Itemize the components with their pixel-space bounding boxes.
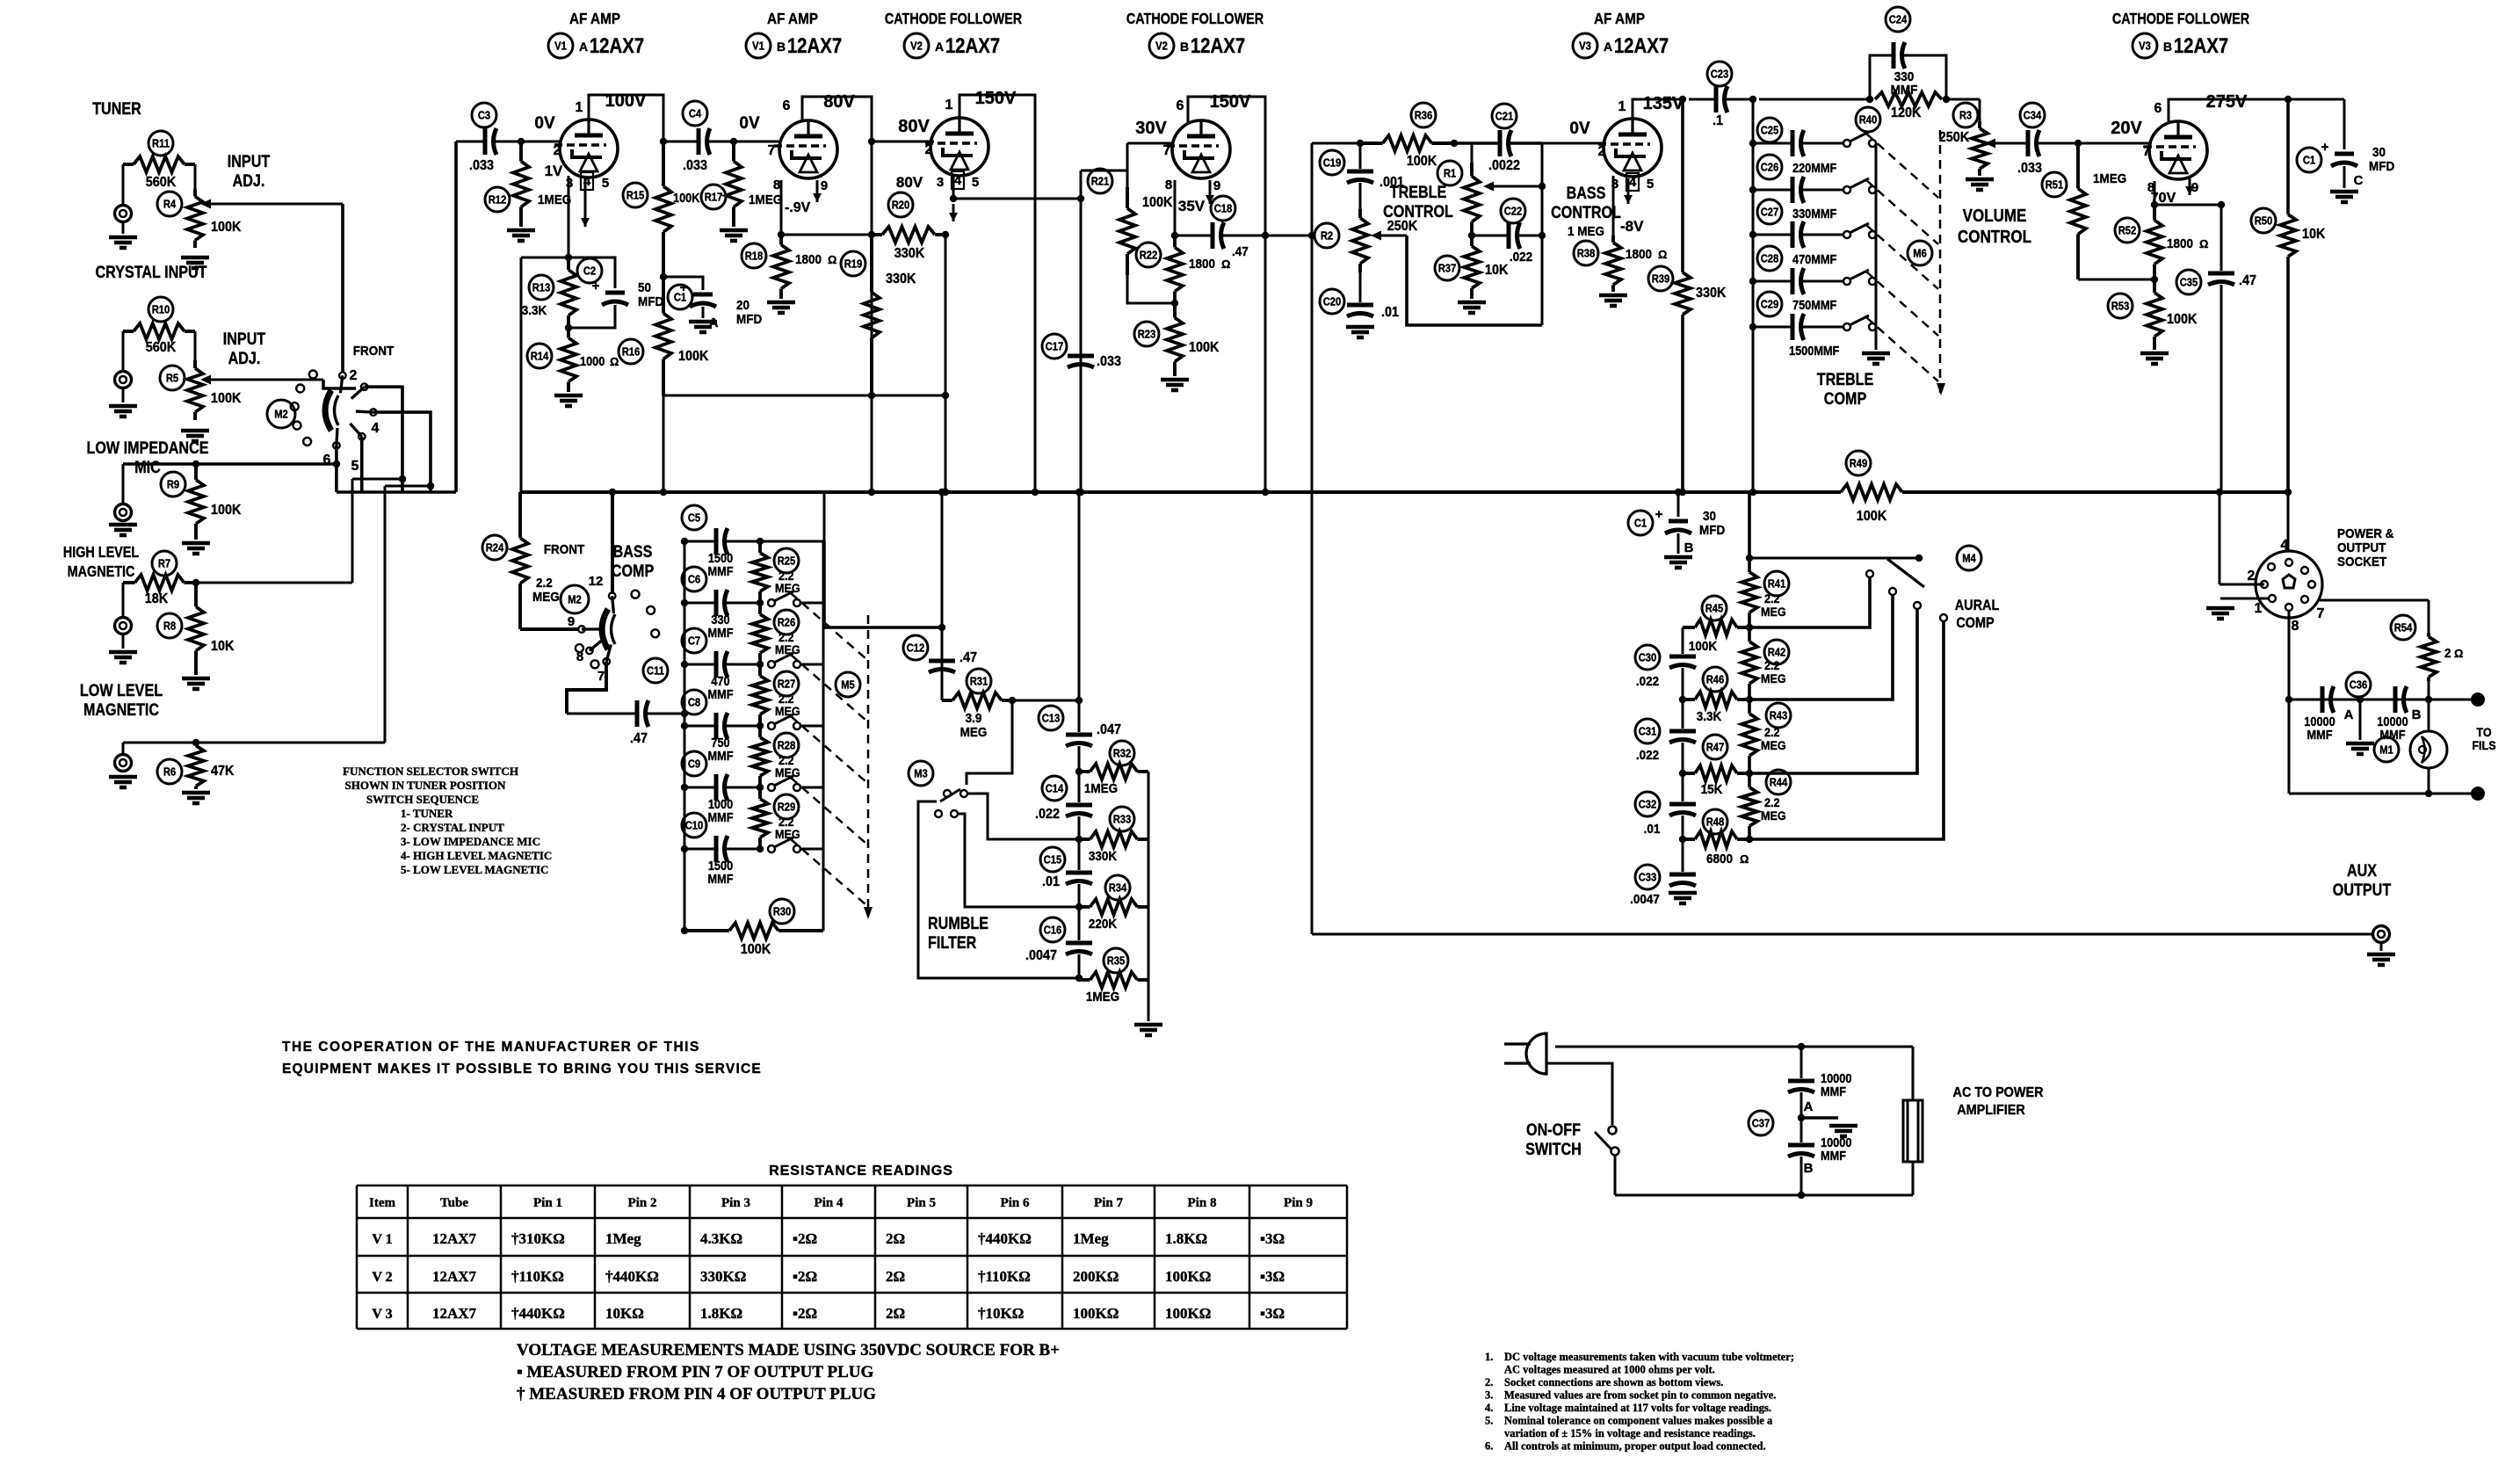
wire main B+ bus (520, 489, 2292, 496)
svg-text:MMF: MMF (1821, 1148, 1846, 1163)
svg-text:Pin 5: Pin 5 (907, 1196, 936, 1210)
svg-text:12AX7: 12AX7 (590, 33, 644, 57)
svg-text:.033: .033 (2017, 160, 2042, 176)
label POWER OUTPUT SOCKET (2337, 526, 2393, 569)
resistor R41 2.2MEG (1742, 571, 1789, 619)
jack aux output (2373, 926, 2390, 943)
capacitor C30 .022 (1635, 627, 1696, 689)
svg-text:200KΩ: 200KΩ (1073, 1268, 1119, 1285)
svg-text:All controls at minimum, prope: All controls at minimum, proper output l… (1504, 1440, 1766, 1453)
switch M6 treble comp dashed linkage (1866, 130, 1945, 395)
svg-text:4: 4 (372, 421, 380, 436)
svg-text:Pin 6: Pin 6 (1001, 1196, 1030, 1210)
ground R17 (720, 230, 748, 241)
power output socket (2256, 551, 2322, 618)
svg-text:ADJ.: ADJ. (233, 171, 265, 191)
node R52 R53 (2151, 276, 2158, 283)
wire signal rail down to aux (1311, 236, 1314, 934)
pot R3 volume 250K (1939, 99, 1988, 176)
label RUMBLE FILTER (928, 914, 988, 953)
svg-text:.47: .47 (630, 730, 648, 746)
svg-text:C21: C21 (1495, 110, 1514, 123)
svg-text:▪3Ω: ▪3Ω (1260, 1230, 1285, 1247)
svg-text:100K: 100K (1689, 639, 1718, 654)
resistor R11 560K (123, 131, 195, 205)
ground C1B (1664, 557, 1692, 568)
svg-text:C20: C20 (1323, 295, 1342, 308)
pin 8 V2B (1165, 178, 1172, 192)
svg-text:MMF: MMF (707, 871, 733, 886)
svg-text:220MMF: 220MMF (1792, 160, 1836, 175)
svg-text:SHOWN IN TUNER POSITION: SHOWN IN TUNER POSITION (345, 779, 506, 792)
ground R6 (182, 793, 210, 803)
svg-text:INPUT: INPUT (228, 152, 271, 171)
svg-text:4.: 4. (1485, 1402, 1493, 1414)
treble comp value 1500MMF (1789, 343, 1839, 358)
svg-text:B: B (1804, 1161, 1814, 1176)
svg-text:C22: C22 (1504, 205, 1523, 218)
svg-text:Pin 4: Pin 4 (815, 1196, 844, 1210)
svg-text:6: 6 (1177, 98, 1184, 113)
svg-text:▪3Ω: ▪3Ω (1260, 1268, 1285, 1285)
svg-text:10K: 10K (211, 638, 234, 654)
label INPUT ADJ top (228, 152, 271, 191)
svg-text:470MMF: 470MMF (1792, 251, 1836, 266)
svg-text:C23: C23 (1711, 68, 1729, 81)
svg-text:2.: 2. (1485, 1376, 1493, 1388)
svg-text:MEG: MEG (775, 827, 800, 841)
svg-text:C7: C7 (688, 634, 701, 648)
wire signal rail to treble (1312, 143, 1360, 236)
wire plug top line (1555, 1043, 1913, 1050)
svg-text:†10KΩ: †10KΩ (978, 1305, 1024, 1322)
capacitor C32 .01 (1635, 773, 1696, 837)
svg-text:AF AMP: AF AMP (569, 10, 620, 27)
resistor R44 2.2MEG (1742, 770, 1791, 826)
wire high level magnetic line (192, 475, 406, 586)
svg-text:1800: 1800 (1626, 247, 1652, 262)
label 80V V2A grid (898, 117, 930, 136)
wire R21 tap (1077, 170, 1127, 202)
svg-text:C4: C4 (689, 107, 702, 120)
wire R54 to fils line (2425, 681, 2432, 703)
capacitor C22 .022 (1472, 199, 1546, 265)
note cooperation of manufacturer (282, 1040, 762, 1077)
wire low level magnetic line (123, 482, 434, 746)
svg-text:V2: V2 (910, 40, 923, 53)
svg-text:MMF: MMF (1821, 1084, 1846, 1098)
svg-text:Line voltage maintained at 117: Line voltage maintained at 117 volts for… (1504, 1402, 1771, 1414)
wire V3B cathode arrow (2185, 178, 2194, 195)
svg-text:R34: R34 (1109, 881, 1127, 895)
svg-text:C29: C29 (1761, 298, 1779, 311)
svg-text:R37: R37 (1438, 262, 1457, 275)
svg-text:MIC: MIC (134, 458, 161, 477)
svg-text:4: 4 (1629, 175, 1637, 190)
wire V3A cathode to R38 (1612, 176, 1615, 236)
svg-text:0V: 0V (534, 114, 555, 133)
svg-text:30: 30 (1703, 509, 1716, 524)
capacitor C20 .01 (1320, 272, 1400, 320)
svg-text:50: 50 (638, 280, 651, 295)
label 1V V1A (545, 163, 563, 179)
wire fils bottom line (2289, 700, 2473, 797)
resistor R6 47K (157, 743, 234, 789)
svg-text:R7: R7 (158, 557, 171, 570)
wire aural chain rail (1746, 492, 1753, 839)
svg-text:330K: 330K (894, 245, 924, 261)
svg-text:B: B (777, 40, 786, 54)
resistor R26 2.2MEG bass comp (752, 603, 800, 664)
svg-text:R28: R28 (778, 739, 796, 752)
node treble input (1357, 140, 1364, 147)
switch M5 bass comp dashed linkage (791, 593, 873, 919)
svg-text:Pin 7: Pin 7 (1094, 1196, 1123, 1210)
label BASS COMP (612, 542, 655, 581)
capacitor C17 .033 (1042, 334, 1121, 369)
svg-text:100K: 100K (2167, 311, 2197, 327)
ground C1A (689, 322, 717, 332)
svg-text:2- CRYSTAL INPUT: 2- CRYSTAL INPUT (401, 821, 504, 834)
label 70V V3B cathode (2151, 191, 2176, 206)
svg-text:12AX7: 12AX7 (787, 33, 842, 57)
notes list (1485, 1351, 1794, 1453)
svg-text:1: 1 (2255, 601, 2263, 616)
svg-text:C30: C30 (1639, 651, 1657, 664)
svg-text:V3: V3 (1579, 40, 1591, 53)
svg-text:250K: 250K (1387, 218, 1417, 234)
label AC TO POWER AMPLIFIER (1953, 1084, 2044, 1118)
svg-text:.47: .47 (959, 649, 977, 665)
svg-text:2Ω: 2Ω (886, 1230, 905, 1247)
note function selector switch (343, 765, 552, 876)
resistor R31 3.9MEG (942, 669, 1016, 740)
svg-text:80V: 80V (896, 174, 923, 191)
capacitor C29 treble comp (1749, 292, 1876, 340)
svg-text:R54: R54 (2394, 621, 2413, 634)
ground R37 (1458, 302, 1486, 313)
label FRONT bass selector (544, 542, 585, 557)
resistor R25 2.2MEG bass comp (752, 541, 800, 603)
svg-text:100K: 100K (1142, 194, 1172, 210)
pins 3 4 5 V3A (1611, 173, 1654, 192)
svg-text:330K: 330K (886, 271, 916, 286)
svg-text:R4: R4 (163, 198, 177, 211)
wire selector output to C3 (454, 141, 458, 492)
ground R53 (2140, 353, 2169, 364)
svg-text:2: 2 (2248, 569, 2256, 584)
wire R46 row to switch (1749, 588, 1896, 700)
wire C37 bottom (1798, 1156, 1805, 1199)
svg-text:C6: C6 (688, 573, 701, 586)
resistor R36 100K (1360, 103, 1454, 169)
jack low impedance mic (115, 464, 132, 521)
pin 7 V1B (768, 143, 776, 158)
svg-text:6800: 6800 (1706, 852, 1733, 866)
svg-text:18K: 18K (145, 591, 168, 606)
resistor R15 100K (623, 138, 699, 277)
svg-text:1.: 1. (1485, 1351, 1493, 1363)
svg-text:†110KΩ: †110KΩ (511, 1268, 564, 1285)
resistor R10 560K (123, 297, 195, 371)
capacitor C31 .022 (1635, 700, 1696, 763)
svg-text:3.9: 3.9 (966, 711, 982, 726)
svg-text:MMF: MMF (707, 686, 733, 701)
svg-text:C14: C14 (1046, 782, 1064, 795)
resistor R37 10K (1435, 236, 1508, 299)
label 135V V3A plate (1643, 94, 1684, 113)
svg-text:10KΩ: 10KΩ (605, 1305, 644, 1322)
ground high level jack (109, 652, 137, 663)
svg-text:12AX7: 12AX7 (432, 1305, 477, 1322)
resistor R42 2.2MEG (1742, 640, 1789, 685)
treble comp value 220MMF (1792, 160, 1836, 175)
svg-text:560K: 560K (146, 174, 176, 190)
ground socket pin1 (2206, 608, 2234, 619)
wire R21 bottom to R22 node (1127, 275, 1174, 303)
svg-text:20: 20 (736, 298, 749, 313)
svg-text:C19: C19 (1323, 156, 1342, 170)
AC plug (1504, 1033, 1546, 1074)
svg-text:B: B (1180, 40, 1189, 54)
wire plug lower prong to switch (1546, 1063, 1612, 1125)
label LOW LEVEL MAGNETIC (80, 681, 163, 720)
svg-text:-.9V: -.9V (785, 200, 811, 215)
svg-text:Ω: Ω (1221, 257, 1230, 271)
capacitor C28 treble comp (1749, 246, 1876, 294)
node R43 R44 (1746, 770, 1753, 777)
svg-text:7: 7 (597, 669, 605, 684)
svg-text:A: A (1604, 40, 1612, 54)
capacitor C1 section B 30MFD (1628, 492, 1725, 555)
capacitor C33 .0047 (1630, 839, 1696, 907)
value label treble comp row 2 (0, 0, 1, 1)
value label treble comp row 4 (0, 0, 1, 1)
resistor R46 3.3K (1679, 667, 1749, 724)
svg-text:R14: R14 (531, 350, 549, 363)
svg-text:.047: .047 (1097, 721, 1121, 737)
tube V1A stage label (548, 10, 644, 58)
svg-text:150V: 150V (975, 89, 1017, 108)
svg-text:V 3: V 3 (372, 1307, 392, 1322)
svg-text:V1: V1 (752, 40, 764, 53)
wire V2B plate to bus (1188, 97, 1269, 492)
label 0V V3A grid (1569, 120, 1590, 138)
wire R51 bottom to cathode chain (2078, 279, 2154, 281)
svg-text:M1: M1 (2379, 743, 2393, 757)
svg-text:.022: .022 (1636, 748, 1659, 763)
svg-text:1Meg: 1Meg (605, 1230, 641, 1247)
svg-text:1.8KΩ: 1.8KΩ (700, 1305, 742, 1322)
capacitor C37 label (1749, 1111, 1773, 1135)
svg-text:+: + (2321, 140, 2329, 155)
svg-text:R33: R33 (1113, 813, 1132, 826)
capacitor C15 .01 (1040, 816, 1092, 889)
svg-text:2Ω: 2Ω (886, 1268, 905, 1285)
svg-text:Ω: Ω (828, 253, 836, 266)
tube V3B (2144, 121, 2207, 179)
svg-text:CATHODE FOLLOWER: CATHODE FOLLOWER (885, 11, 1023, 28)
svg-text:COMP: COMP (1956, 615, 1994, 631)
svg-text:C9: C9 (688, 758, 701, 771)
svg-text:VOLUME: VOLUME (1963, 206, 2027, 226)
resistor R47 15K (1679, 735, 1749, 797)
resistor R30 100K bass comp (681, 899, 823, 957)
svg-text:FRONT: FRONT (353, 344, 395, 359)
resistor R32 1MEG (1075, 741, 1148, 796)
svg-text:▪2Ω: ▪2Ω (793, 1268, 817, 1285)
tube V2B (1167, 120, 1230, 178)
svg-text:R24: R24 (486, 541, 504, 555)
svg-text:R35: R35 (1107, 954, 1126, 968)
svg-text:1: 1 (1618, 99, 1626, 114)
svg-text:MFD: MFD (736, 312, 762, 327)
svg-text:100KΩ: 100KΩ (1165, 1268, 1211, 1285)
svg-text:275V: 275V (2206, 92, 2248, 112)
svg-text:FILS: FILS (2472, 738, 2495, 752)
svg-text:Ω: Ω (2199, 237, 2208, 250)
svg-text:2: 2 (1598, 144, 1606, 159)
capacitor C23 .1 (1689, 62, 1756, 128)
svg-text:.0047: .0047 (1025, 947, 1057, 963)
svg-text:ADJ.: ADJ. (228, 349, 261, 368)
svg-text:R8: R8 (163, 620, 177, 633)
ground R14 (554, 395, 583, 406)
wire bass network right rail (1541, 143, 1544, 325)
svg-text:1800: 1800 (1189, 257, 1215, 272)
svg-text:6: 6 (2154, 101, 2162, 116)
value label treble comp row 3 (0, 0, 1, 1)
label 80V V1B plate (823, 92, 855, 112)
svg-text:R47: R47 (1706, 741, 1725, 754)
wire treble comp right rail (1875, 143, 1878, 350)
svg-text:R16: R16 (622, 345, 641, 359)
svg-text:1000: 1000 (580, 353, 605, 368)
svg-text:C2: C2 (583, 265, 597, 278)
tube V1A (554, 120, 618, 178)
svg-text:5: 5 (351, 459, 359, 474)
svg-text:R31: R31 (970, 675, 988, 688)
svg-text:C24: C24 (1889, 13, 1908, 26)
resistor R34 220K (1075, 875, 1148, 932)
resistor R52 1800 ohm (2115, 205, 2208, 279)
svg-text:1.8KΩ: 1.8KΩ (1165, 1230, 1207, 1247)
svg-text:6.: 6. (1485, 1440, 1493, 1453)
ground R4 (181, 257, 209, 268)
tube V3A stage label (1573, 10, 1669, 58)
ground tuner jack (109, 237, 137, 248)
capacitor C37 section B 10000MMF (1788, 1135, 1852, 1176)
wire M3 contact1 to R33 row (967, 794, 1079, 839)
wire V2A plate to bus (959, 95, 1035, 492)
wire R4 wiper to selector contact 1 (200, 199, 343, 373)
svg-text:1MEG: 1MEG (538, 192, 571, 207)
label 100V V1A plate (605, 91, 647, 111)
wire R48 row to switch (1749, 614, 1947, 839)
capacitor C16 .0047 (1025, 884, 1092, 963)
svg-text:R51: R51 (2046, 178, 2064, 192)
svg-text:R44: R44 (1770, 776, 1788, 789)
svg-text:C27: C27 (1761, 206, 1779, 219)
svg-text:R11: R11 (152, 137, 170, 150)
resistor R28 2.2MEG bass comp (752, 726, 800, 787)
wire R16 bottom rail (663, 392, 949, 399)
svg-text:TREBLE: TREBLE (1817, 370, 1874, 389)
svg-text:AMPLIFIER: AMPLIFIER (1957, 1102, 2025, 1118)
wire R24 to rotary 9 (520, 627, 578, 631)
svg-text:.022: .022 (1035, 806, 1060, 822)
wire bus to socket pin4 (2287, 492, 2290, 552)
wire bus to rotary 12 (611, 492, 614, 594)
svg-text:15K: 15K (1701, 782, 1723, 797)
ground R38 (1599, 295, 1627, 306)
svg-text:150V: 150V (1210, 92, 1251, 112)
svg-text:.022: .022 (1636, 674, 1659, 689)
svg-text:80V: 80V (823, 92, 855, 112)
capacitor C36 section A 10000MMF (2304, 686, 2353, 742)
svg-text:.033: .033 (469, 157, 494, 173)
svg-text:120K: 120K (1891, 105, 1921, 120)
pin 6 V1B (783, 98, 791, 113)
switch on-off (1595, 1127, 1619, 1156)
svg-text:B: B (1684, 540, 1694, 555)
svg-text:MFD: MFD (638, 294, 663, 309)
svg-text:R23: R23 (1138, 328, 1156, 341)
svg-text:R9: R9 (167, 478, 180, 491)
resistor R51 1MEG (2042, 140, 2126, 279)
pin 2 V3A (1598, 144, 1606, 159)
pin 1 V1A (576, 100, 583, 115)
wire bass comp left rail (684, 541, 686, 931)
svg-text:Measured values are from socke: Measured values are from socket pin to c… (1504, 1389, 1776, 1402)
capacitor C37 section A 10000MMF (1788, 1047, 1852, 1114)
jack crystal input (115, 372, 132, 403)
wire C12 rail (938, 492, 945, 700)
label AURAL COMP (1955, 598, 2000, 631)
wire M3 pivot to R35 row (918, 801, 1079, 978)
svg-text:MAGNETIC: MAGNETIC (83, 700, 159, 720)
svg-text:MEG: MEG (775, 581, 800, 595)
pins 3 4 5 V2A (937, 171, 979, 190)
svg-text:1: 1 (945, 98, 953, 112)
svg-text:Ω: Ω (2454, 647, 2463, 660)
svg-text:100K: 100K (673, 190, 699, 205)
svg-text:0V: 0V (1569, 120, 1590, 138)
svg-text:1Meg: 1Meg (1073, 1230, 1109, 1247)
svg-text:LOW LEVEL: LOW LEVEL (80, 681, 163, 700)
svg-text:MMF: MMF (2306, 727, 2332, 742)
svg-text:1V: 1V (545, 163, 563, 179)
svg-text:SWITCH SEQUENCE: SWITCH SEQUENCE (366, 793, 479, 806)
svg-text:MEG: MEG (1761, 671, 1786, 685)
svg-text:TO: TO (2476, 725, 2491, 739)
resistance readings table (357, 1164, 1347, 1329)
label 80V V2A cathode (896, 174, 923, 191)
svg-text:R1: R1 (1444, 167, 1457, 180)
capacitor C24 330MMF bypass (1870, 7, 1946, 99)
svg-text:R29: R29 (778, 801, 796, 814)
svg-text:.01: .01 (1042, 874, 1061, 889)
label TO FILS (2472, 725, 2495, 752)
svg-text:R40: R40 (1859, 113, 1878, 127)
svg-text:750MMF: 750MMF (1792, 297, 1836, 312)
node C37 mid (1798, 1092, 1805, 1142)
svg-text:10K: 10K (2302, 226, 2325, 242)
wire low impedance mic line (123, 460, 340, 468)
node R44 R48 (1746, 836, 1753, 843)
tube V2B stage label (1126, 11, 1264, 58)
wire V3A plate to C23 (1633, 96, 1686, 119)
